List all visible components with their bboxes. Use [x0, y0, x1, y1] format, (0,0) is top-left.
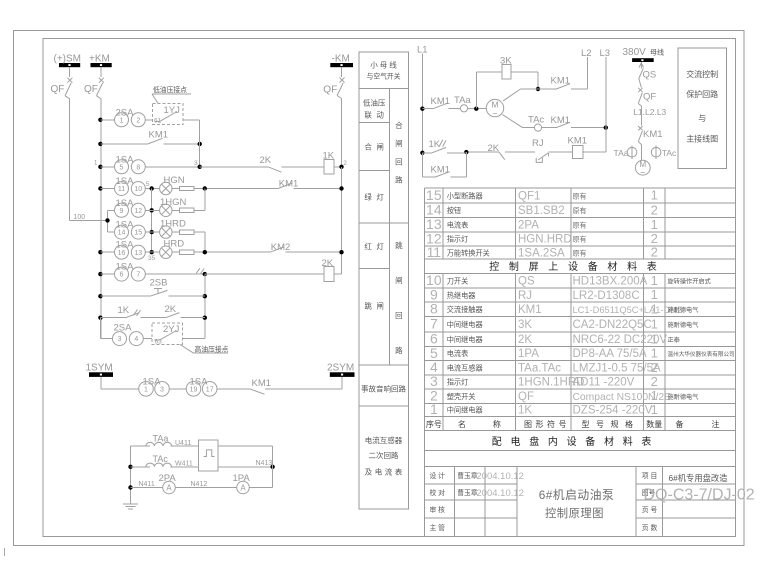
svg-text:11: 11: [427, 244, 442, 260]
svg-text:N411: N411: [139, 481, 155, 488]
svg-text:符: 符: [547, 419, 555, 429]
svg-text:备: 备: [676, 419, 684, 429]
svg-text:380V: 380V: [623, 47, 647, 58]
svg-text:项 目: 项 目: [642, 472, 657, 480]
svg-text:2004.10.12: 2004.10.12: [476, 471, 524, 482]
svg-text:1: 1: [651, 273, 658, 288]
svg-text:1SA: 1SA: [116, 262, 135, 273]
svg-text:1PA: 1PA: [233, 473, 251, 484]
svg-text:事故音响回路: 事故音响回路: [361, 384, 406, 394]
svg-text:回: 回: [395, 157, 403, 166]
svg-text:名: 名: [458, 419, 466, 429]
svg-text:1SA: 1SA: [116, 220, 135, 231]
svg-text:电流表: 电流表: [447, 349, 469, 358]
svg-text:+KM: +KM: [89, 54, 110, 65]
svg-text:施耐德电气: 施耐德电气: [668, 306, 699, 314]
svg-text:数量: 数量: [646, 419, 662, 429]
svg-text:设 计: 设 计: [430, 471, 446, 480]
svg-text:L1.L2.L3: L1.L2.L3: [633, 107, 666, 117]
svg-text:QF: QF: [643, 92, 656, 103]
svg-text:电: 电: [375, 467, 383, 477]
svg-text:材: 材: [604, 435, 614, 448]
svg-text:二次回路: 二次回路: [369, 450, 399, 460]
svg-text:1: 1: [651, 346, 658, 361]
svg-text:6: 6: [120, 272, 124, 279]
svg-text:16: 16: [118, 250, 126, 257]
svg-text:称: 称: [493, 419, 501, 429]
svg-text:KM1: KM1: [149, 129, 169, 140]
svg-text:5: 5: [120, 164, 124, 171]
svg-text:小型断路器: 小型断路器: [447, 191, 483, 200]
svg-text:电: 电: [511, 435, 521, 448]
svg-text:KM1: KM1: [431, 96, 451, 107]
svg-text:100: 100: [74, 214, 86, 221]
svg-text:2K: 2K: [165, 304, 177, 315]
svg-text:指示灯: 指示灯: [447, 378, 469, 387]
svg-text:中间继电器: 中间继电器: [447, 335, 483, 344]
svg-text:型: 型: [582, 420, 590, 429]
svg-text:电流互感器: 电流互感器: [447, 363, 483, 372]
svg-text:制: 制: [509, 260, 519, 273]
svg-text:A: A: [240, 484, 246, 493]
svg-text:1: 1: [651, 402, 658, 417]
svg-text:1K: 1K: [118, 305, 130, 316]
svg-text:1SA: 1SA: [116, 240, 135, 251]
svg-text:红: 红: [364, 241, 372, 251]
svg-text:料: 料: [623, 435, 633, 448]
svg-text:2: 2: [651, 360, 658, 375]
svg-text:KM1: KM1: [252, 378, 272, 389]
svg-text:内: 内: [548, 435, 558, 448]
svg-text:表: 表: [395, 467, 403, 477]
svg-text:1SA: 1SA: [190, 377, 209, 388]
svg-text:原有: 原有: [573, 248, 587, 257]
svg-text:TAa: TAa: [454, 95, 471, 106]
svg-text:QS: QS: [518, 275, 535, 287]
svg-text:3K: 3K: [518, 319, 532, 331]
svg-text:灯: 灯: [376, 192, 384, 202]
svg-text:9: 9: [120, 208, 124, 215]
svg-text:KM1: KM1: [279, 179, 299, 190]
svg-text:LMZJ1-0.5 75/5A: LMZJ1-0.5 75/5A: [573, 362, 662, 374]
svg-text:审 核: 审 核: [430, 505, 446, 514]
svg-text:6#机启动油泵: 6#机启动油泵: [539, 488, 615, 502]
svg-text:1: 1: [430, 401, 438, 417]
svg-text:配: 配: [492, 436, 502, 448]
svg-text:11: 11: [118, 186, 125, 193]
svg-text:QF: QF: [51, 84, 65, 95]
svg-text:15: 15: [426, 187, 442, 203]
svg-text:LC1-D6511Q5C+LA1-DN2: LC1-D6511Q5C+LA1-DN2: [573, 305, 683, 315]
svg-text:闸: 闸: [376, 302, 384, 311]
svg-text:AD11 -220V: AD11 -220V: [573, 377, 635, 389]
svg-text:KM2: KM2: [271, 242, 291, 253]
svg-text:万能转换开关: 万能转换开关: [447, 248, 490, 257]
svg-text:与空气开关: 与空气开关: [367, 72, 401, 81]
svg-text:交流接触器: 交流接触器: [447, 305, 483, 314]
svg-text:KM1: KM1: [431, 165, 451, 176]
svg-text:绿: 绿: [364, 193, 372, 202]
svg-text:1SYM: 1SYM: [86, 363, 113, 374]
svg-text:13: 13: [134, 250, 142, 257]
svg-text:DQ-C3-7/DJ-02: DQ-C3-7/DJ-02: [644, 487, 755, 504]
svg-text:7: 7: [136, 272, 140, 279]
svg-text:施耐德电气: 施耐德电气: [668, 393, 699, 401]
svg-text:施耐德电气: 施耐德电气: [668, 321, 699, 329]
svg-text:原有: 原有: [573, 206, 587, 215]
svg-text:QF: QF: [518, 391, 534, 403]
svg-text:QF: QF: [84, 84, 98, 95]
svg-text:3: 3: [118, 336, 122, 343]
svg-text:2K: 2K: [322, 258, 334, 269]
svg-text:14: 14: [118, 230, 126, 237]
svg-text:1SA: 1SA: [116, 154, 135, 165]
svg-text:1K: 1K: [323, 151, 335, 162]
svg-text:按钮: 按钮: [447, 206, 461, 215]
svg-text:联: 联: [364, 111, 372, 120]
svg-text:KM1: KM1: [568, 136, 588, 147]
svg-text:1: 1: [651, 316, 658, 331]
svg-text:1PA: 1PA: [518, 348, 539, 360]
svg-text:1: 1: [94, 160, 98, 167]
svg-text:1: 1: [651, 301, 658, 316]
svg-text:KM1: KM1: [551, 115, 571, 126]
svg-text:N412: N412: [191, 481, 208, 488]
svg-text:中间继电器: 中间继电器: [447, 406, 483, 415]
svg-text:闸: 闸: [376, 143, 384, 152]
svg-text:设: 设: [568, 261, 578, 273]
svg-text:A: A: [166, 484, 172, 493]
svg-text:TAc: TAc: [662, 148, 677, 158]
svg-text:页 号: 页 号: [642, 506, 658, 514]
svg-text:HGN.HRD: HGN.HRD: [518, 234, 572, 246]
svg-text:设: 设: [567, 436, 577, 448]
svg-text:DP8-AA 75/5A: DP8-AA 75/5A: [573, 348, 647, 360]
svg-text:原有: 原有: [573, 235, 587, 244]
svg-text:备: 备: [588, 260, 598, 273]
svg-text:L3: L3: [600, 48, 611, 59]
svg-text:小: 小: [370, 61, 378, 70]
svg-text:低油压: 低油压: [363, 98, 386, 108]
svg-text:电流表: 电流表: [447, 220, 469, 229]
svg-text:1SA.2SA: 1SA.2SA: [518, 247, 565, 259]
svg-text:HGN: HGN: [164, 175, 185, 186]
svg-text:~: ~: [640, 167, 645, 177]
svg-text:RJ: RJ: [532, 138, 544, 149]
svg-text:控: 控: [489, 260, 499, 273]
svg-text:SB1.SB2: SB1.SB2: [518, 205, 565, 217]
svg-text:主接线图: 主接线图: [686, 134, 718, 144]
svg-text:主 管: 主 管: [430, 523, 446, 532]
svg-text:KM1: KM1: [643, 129, 663, 140]
svg-text:1HRD: 1HRD: [160, 219, 186, 230]
svg-text:RJ: RJ: [518, 290, 532, 302]
svg-text:2SB: 2SB: [150, 278, 168, 289]
svg-text:2: 2: [343, 160, 347, 167]
svg-text:L2: L2: [581, 48, 592, 59]
svg-text:序号: 序号: [426, 419, 442, 429]
svg-text:35: 35: [148, 255, 156, 262]
svg-text:母: 母: [380, 61, 388, 70]
svg-text:正泰: 正泰: [668, 336, 680, 344]
svg-text:低油压接点: 低油压接点: [153, 85, 187, 94]
svg-text:闸: 闸: [395, 139, 403, 148]
svg-text:电流互感器: 电流互感器: [365, 435, 403, 445]
svg-text:规: 规: [611, 419, 619, 429]
svg-text:原有: 原有: [573, 220, 587, 229]
svg-text:1: 1: [651, 388, 658, 403]
svg-text:QF1: QF1: [518, 190, 540, 202]
svg-text:路: 路: [395, 345, 403, 355]
svg-text:线: 线: [389, 60, 397, 70]
svg-text:塑壳开关: 塑壳开关: [447, 392, 476, 401]
svg-text:1: 1: [651, 188, 658, 203]
svg-text:1: 1: [651, 217, 658, 232]
svg-text:LR2-D1308C: LR2-D1308C: [573, 290, 640, 302]
svg-text:曹玉章: 曹玉章: [457, 471, 478, 480]
svg-text:N413: N413: [256, 460, 273, 467]
svg-text:指示灯: 指示灯: [447, 235, 469, 244]
svg-text:材: 材: [607, 260, 617, 273]
svg-text:高油压接点: 高油压接点: [195, 344, 229, 353]
svg-text:1SA: 1SA: [116, 198, 135, 209]
svg-text:号: 号: [596, 420, 604, 429]
svg-text:屏: 屏: [529, 261, 539, 273]
svg-text:号: 号: [559, 420, 567, 429]
svg-text:TAc: TAc: [528, 115, 544, 126]
svg-text:1K: 1K: [518, 405, 532, 417]
svg-text:灯: 灯: [376, 241, 384, 251]
svg-text:1K: 1K: [429, 139, 441, 150]
svg-text:形: 形: [536, 420, 544, 429]
svg-text:1: 1: [651, 287, 658, 302]
svg-text:2SYM: 2SYM: [327, 363, 354, 374]
svg-text:2PA: 2PA: [159, 473, 177, 484]
svg-text:交流控制: 交流控制: [686, 69, 718, 79]
svg-text:3: 3: [194, 160, 198, 167]
svg-text:12: 12: [134, 208, 142, 215]
svg-text:流: 流: [385, 467, 393, 477]
svg-text:旋转操作开启式: 旋转操作开启式: [668, 277, 711, 285]
svg-text:保护回路: 保护回路: [686, 89, 718, 99]
svg-text:TAa: TAa: [153, 433, 169, 443]
svg-text:刀开关: 刀开关: [447, 276, 469, 285]
svg-text:3K: 3K: [500, 56, 512, 67]
svg-text:表: 表: [641, 435, 651, 448]
svg-text:格: 格: [625, 419, 633, 429]
svg-text:1: 1: [651, 331, 658, 346]
svg-text:及: 及: [365, 468, 373, 477]
svg-text:跳: 跳: [395, 240, 403, 250]
svg-text:与: 与: [698, 114, 706, 123]
svg-text:页 数: 页 数: [642, 523, 658, 532]
svg-text:5: 5: [146, 181, 150, 188]
svg-text:温州大华仪器仪表有限公司: 温州大华仪器仪表有限公司: [668, 350, 735, 358]
svg-text:4: 4: [134, 336, 138, 343]
svg-text:7: 7: [430, 315, 438, 331]
svg-text:表: 表: [647, 260, 657, 273]
svg-text:控制原理图: 控制原理图: [545, 506, 604, 520]
svg-text:HRD: HRD: [164, 239, 185, 250]
svg-text:KM1: KM1: [518, 304, 542, 316]
svg-text:2: 2: [651, 374, 658, 389]
svg-text:KM1: KM1: [551, 76, 571, 87]
svg-text:1SA: 1SA: [143, 377, 162, 388]
svg-text:曹玉章: 曹玉章: [457, 488, 478, 497]
svg-text:母线: 母线: [650, 48, 664, 57]
svg-text:TAc: TAc: [153, 454, 169, 464]
svg-text:QS: QS: [643, 70, 657, 81]
svg-text:注: 注: [712, 419, 720, 429]
svg-text:8: 8: [136, 164, 140, 171]
svg-text:合: 合: [395, 120, 403, 130]
svg-text:8: 8: [430, 301, 438, 317]
svg-text:路: 路: [395, 175, 403, 185]
svg-text:TAa: TAa: [614, 148, 629, 158]
svg-text:~: ~: [492, 109, 497, 119]
svg-text:3: 3: [160, 386, 164, 393]
svg-text:动: 动: [376, 110, 384, 120]
svg-text:2K: 2K: [260, 155, 272, 166]
svg-text:料: 料: [627, 260, 637, 273]
svg-text:HD13BX.200A: HD13BX.200A: [573, 275, 648, 287]
svg-text:跳: 跳: [364, 301, 372, 311]
svg-text:2: 2: [136, 117, 140, 124]
svg-text:TAa.TAc: TAa.TAc: [518, 362, 561, 374]
svg-text:备: 备: [585, 435, 595, 448]
svg-text:CA2-DN22Q5C: CA2-DN22Q5C: [573, 319, 652, 331]
svg-text:1HGN: 1HGN: [160, 197, 187, 208]
svg-text:2: 2: [651, 245, 658, 260]
svg-text:校 对: 校 对: [430, 488, 446, 497]
svg-text:2: 2: [651, 202, 658, 217]
svg-text:合: 合: [364, 142, 372, 152]
svg-text:热继电器: 热继电器: [447, 291, 476, 300]
svg-text:盘: 盘: [529, 435, 539, 448]
svg-text:15: 15: [134, 230, 142, 237]
svg-text:DZS-254 -220V: DZS-254 -220V: [573, 405, 653, 417]
svg-text:回: 回: [395, 311, 403, 320]
svg-text:2SA: 2SA: [116, 108, 135, 119]
svg-text:原有: 原有: [573, 191, 587, 200]
svg-text:2K: 2K: [518, 334, 532, 346]
svg-text:2SA: 2SA: [114, 323, 133, 334]
svg-text:图: 图: [524, 420, 532, 429]
svg-text:-KM: -KM: [332, 54, 350, 65]
svg-text:10: 10: [134, 186, 142, 193]
svg-text:(+)SM: (+)SM: [54, 54, 82, 65]
svg-text:上: 上: [548, 261, 558, 273]
svg-text:1SA: 1SA: [116, 176, 135, 187]
svg-text:2PA: 2PA: [518, 219, 539, 231]
svg-text:2004.10.12: 2004.10.12: [476, 488, 524, 499]
svg-text:QF: QF: [323, 84, 337, 95]
svg-text:6#机专用盘改造: 6#机专用盘改造: [669, 473, 729, 483]
svg-text:中间继电器: 中间继电器: [447, 320, 483, 329]
svg-text:闸: 闸: [395, 276, 403, 285]
